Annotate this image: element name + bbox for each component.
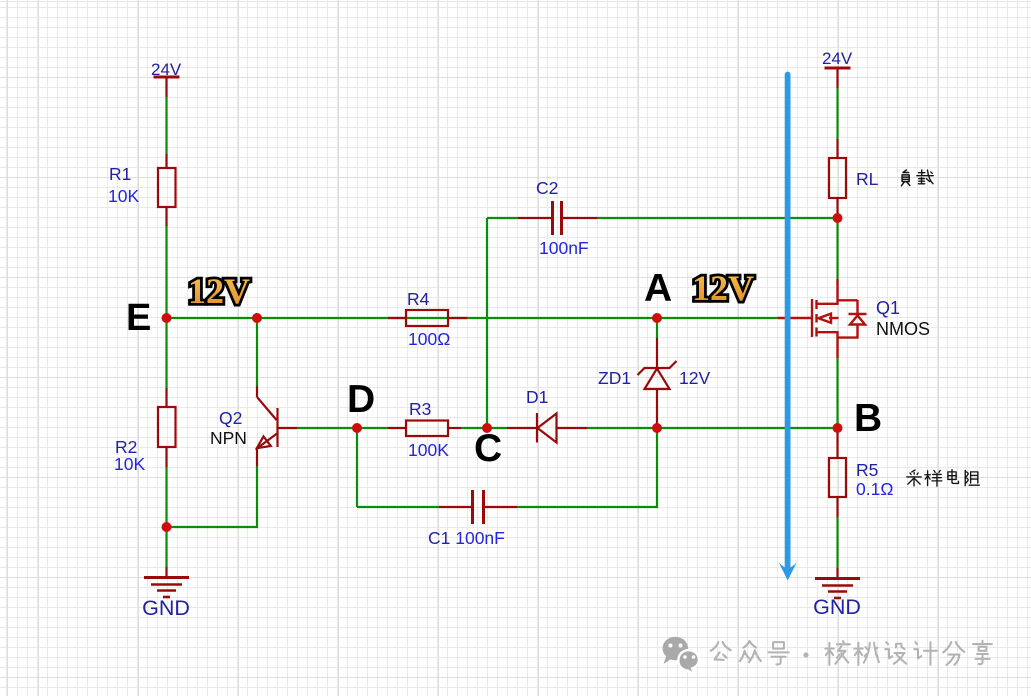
ground GND right [815,568,860,598]
svg-text:24V: 24V [151,60,182,79]
junction R2 bottom [162,522,172,532]
transistor Q1 NMOS [778,279,867,358]
junction Q2 collector [252,313,262,323]
wire C1 right up to D-B wire [517,428,657,507]
svg-text:ZD1: ZD1 [598,368,631,388]
svg-text:A: A [644,267,672,310]
wire R5 to ground [836,517,838,568]
svg-text:R5: R5 [856,460,878,480]
svg-text:C1 100nF: C1 100nF [428,528,505,548]
svg-text:D: D [347,378,375,421]
wire RL junction down to Q1 drain [836,218,838,279]
wire emitter to ground rail [167,466,258,527]
watermark wechat icon [663,637,699,675]
svg-text:R1: R1 [109,164,131,184]
transistor Q2 [257,386,297,466]
junction node C [482,423,492,433]
svg-text:10K: 10K [108,186,139,206]
ground GND left [144,567,189,597]
svg-text:24V: 24V [822,49,853,68]
junction RL bottom [833,213,843,223]
svg-text:GND: GND [142,596,190,620]
wire R1 to node E [165,226,167,318]
svg-text:B: B [854,397,882,440]
svg-text:R3: R3 [409,399,431,419]
power symbol 24V right [825,68,851,88]
svg-text:100Ω: 100Ω [408,329,450,349]
resistor R2 [158,388,176,467]
wire node E down to R2 [165,318,167,388]
label sampling resistor chinese [907,470,979,486]
junction node D [352,423,362,433]
svg-text:10K: 10K [114,454,145,474]
svg-text:NMOS: NMOS [876,319,930,339]
wire C2 branch vertical [486,218,488,428]
resistor R1 [158,154,176,226]
svg-text:Q2: Q2 [219,408,242,428]
wire R3 to node C [461,427,507,429]
wire node D down to C1 [356,428,358,507]
wire C2 to RL junction [597,217,837,219]
wire C1 left [357,506,439,508]
svg-text:RL: RL [856,169,879,189]
power symbol 24V left [154,77,180,97]
wire C2 left [487,217,518,219]
svg-text:100K: 100K [408,440,449,460]
svg-text:100nF: 100nF [539,238,589,258]
wire node A horizontal to Q1 gate [388,317,778,319]
current path arrow (blue) [779,75,797,581]
svg-text:NPN: NPN [210,428,247,448]
svg-text:12V: 12V [679,368,710,388]
resistor RL [829,139,846,218]
wire emitter branch vertical [256,318,258,386]
svg-text:12V: 12V [692,268,754,308]
capacitor C1 [439,490,517,524]
diode D1 [507,413,587,443]
svg-text:Q1: Q1 [876,298,900,318]
wire 24V to R1 [165,97,167,154]
wire 24V to RL [836,88,838,139]
resistor R4 [388,310,467,326]
label RL load chinese [901,170,933,186]
resistor R5 [829,428,846,517]
svg-text:R4: R4 [407,289,430,309]
wire Q2 base to node D [297,427,388,429]
wire R2 to lower junction [165,467,167,527]
watermark text [711,641,992,665]
svg-text:D1: D1 [526,387,548,407]
resistor R3 [388,421,461,437]
zener ZD1 [638,318,677,428]
svg-text:C2: C2 [536,178,558,198]
junction zener anode [652,423,662,433]
svg-text:C: C [474,427,502,470]
junction node A [652,313,662,323]
wire lower junction to ground [165,527,167,567]
svg-text:0.1Ω: 0.1Ω [856,479,893,499]
wire node E horizontal to R4 [167,317,389,319]
svg-text:GND: GND [813,595,861,619]
junction node B [833,423,843,433]
wire D1 to zener junction to node B [587,427,837,429]
svg-text:E: E [126,297,151,339]
svg-text:12V: 12V [188,271,250,311]
junction node E [162,313,172,323]
wire Q1 source to node B [836,358,838,428]
capacitor C2 [518,201,597,235]
